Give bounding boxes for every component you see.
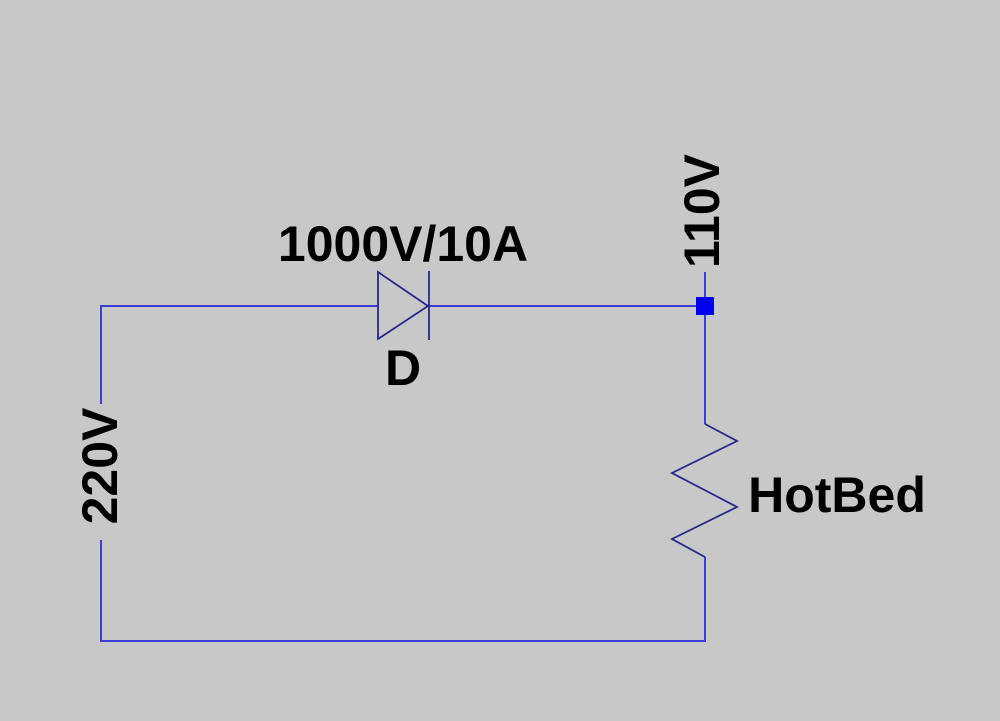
wire: left vertical upper segment (220V side) [100, 305, 102, 404]
svg-text:1000V/10A: 1000V/10A [278, 216, 528, 272]
wire: right vertical, resistor bottom to corner [704, 557, 706, 642]
svg-text:HotBed: HotBed [748, 467, 926, 523]
svg-text:110V: 110V [674, 153, 730, 268]
svg-text:220V: 220V [72, 407, 128, 524]
wire: bottom horizontal return [101, 640, 706, 642]
wire: top horizontal, source to diode anode [101, 305, 379, 307]
wire: right vertical, node down to resistor top [704, 272, 706, 424]
wire: left vertical lower segment (220V side) [100, 540, 102, 642]
diode D symbol (triangle + cathode bar) [378, 271, 429, 340]
resistor HotBed zigzag [672, 424, 737, 557]
wire: top horizontal, diode cathode to node 110V [429, 305, 705, 307]
node junction square 110V [696, 297, 714, 315]
svg-text:D: D [385, 340, 421, 396]
